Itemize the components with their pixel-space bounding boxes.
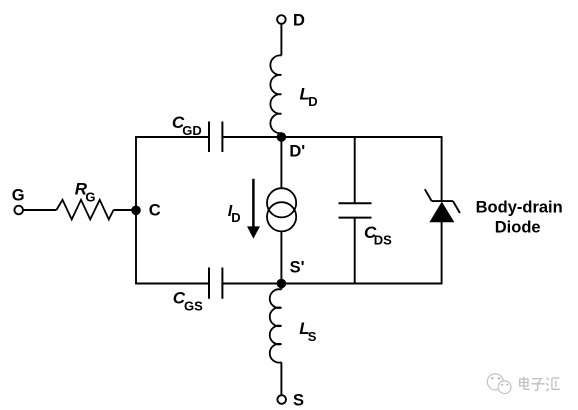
inductor LD [270, 55, 281, 133]
wire diode branch top [441, 137, 443, 201]
wire diode branch bottom [441, 222, 443, 284]
svg-text:S': S' [290, 258, 305, 276]
wire D' to current source [280, 137, 282, 188]
svg-text:D: D [231, 210, 240, 225]
wire [280, 23, 282, 55]
capacitor CDS [339, 202, 372, 204]
current source ID [267, 188, 296, 217]
svg-text:S: S [308, 329, 317, 344]
wire left branch vertical [135, 136, 137, 285]
wire top rail left [136, 136, 209, 138]
wire [280, 133, 282, 137]
svg-text:D: D [293, 11, 305, 29]
watermark logo [487, 374, 511, 394]
wire current source to S' [280, 231, 282, 283]
watermark text dianzihui [520, 377, 560, 391]
node S' [277, 279, 287, 289]
inductor LS [280, 284, 282, 290]
svg-text:D': D' [289, 142, 305, 160]
svg-text:G: G [12, 186, 25, 204]
node C [131, 206, 141, 216]
svg-text:Body-drain: Body-drain [476, 198, 563, 216]
svg-text:G: G [85, 190, 95, 205]
body-drain diode [429, 202, 454, 223]
wire bottom rail right [222, 283, 442, 285]
wire bottom rail left [136, 283, 209, 285]
wire CDS top [354, 137, 356, 203]
node D' [277, 132, 287, 142]
terminal S [277, 395, 286, 404]
capacitor CGS [208, 268, 210, 299]
wire [280, 362, 282, 395]
wire CDS bottom [354, 218, 356, 284]
svg-text:Diode: Diode [495, 218, 541, 236]
svg-text:C: C [149, 202, 161, 220]
svg-text:GD: GD [182, 123, 202, 138]
resistor RG [56, 200, 113, 220]
svg-text:S: S [293, 392, 304, 410]
svg-text:D: D [308, 94, 317, 109]
terminal D [277, 15, 286, 24]
wire [23, 209, 56, 211]
wire top rail right [222, 136, 442, 138]
capacitor CGD [208, 122, 210, 153]
svg-text:GS: GS [184, 299, 203, 314]
terminal G [14, 206, 23, 215]
wire [114, 209, 137, 211]
arrow ID [252, 179, 255, 228]
svg-text:DS: DS [374, 232, 392, 247]
